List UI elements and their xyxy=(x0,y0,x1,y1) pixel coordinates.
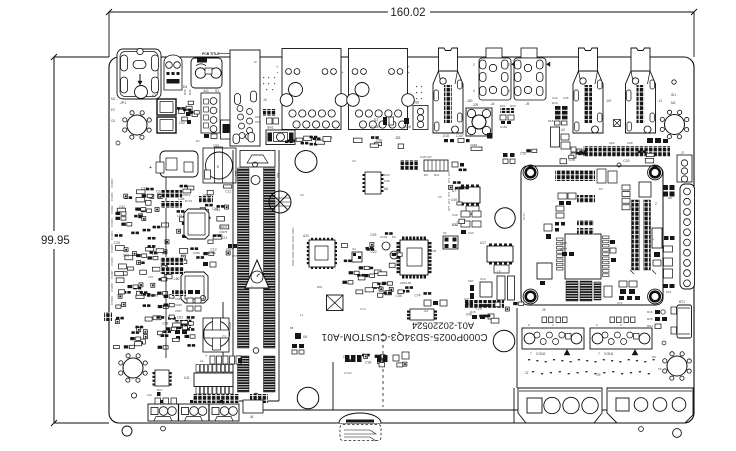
svg-text:7: 7 xyxy=(530,352,532,356)
svg-text:J4: J4 xyxy=(263,98,267,102)
svg-text:C21: C21 xyxy=(221,236,227,240)
svg-text:D20: D20 xyxy=(510,104,516,108)
svg-text:S1: S1 xyxy=(215,89,219,93)
svg-text:U1B: U1B xyxy=(430,249,436,253)
svg-text:Sw1: Sw1 xyxy=(267,126,274,130)
svg-text:X1: X1 xyxy=(443,231,447,235)
svg-text:K9: K9 xyxy=(658,367,662,371)
svg-text:D18: D18 xyxy=(443,134,449,138)
svg-text:C6062: C6062 xyxy=(110,205,114,214)
svg-text:M2: M2 xyxy=(671,101,676,105)
svg-text:J1: J1 xyxy=(659,99,663,103)
svg-text:+: + xyxy=(149,165,152,171)
svg-text:99.95: 99.95 xyxy=(41,235,70,247)
svg-text:C79: C79 xyxy=(180,106,186,110)
svg-text:D4: D4 xyxy=(183,85,187,89)
svg-text:U22: U22 xyxy=(303,234,309,238)
svg-text:.D3: .D3 xyxy=(373,118,378,122)
svg-text:C000P0025-SD34Q3-CUSTOM-A01: C000P0025-SD34Q3-CUSTOM-A01 xyxy=(321,331,487,342)
svg-text:.J9: .J9 xyxy=(525,102,529,106)
svg-text:C6066: C6066 xyxy=(110,257,114,266)
svg-text:C645: C645 xyxy=(175,303,182,307)
svg-text:C6067: C6067 xyxy=(110,270,114,279)
svg-text:L50: L50 xyxy=(174,277,180,281)
svg-text:J47: J47 xyxy=(606,99,612,103)
svg-text:C52: C52 xyxy=(179,121,185,125)
svg-text:C6072: C6072 xyxy=(182,193,191,197)
svg-text:C45: C45 xyxy=(563,96,569,100)
svg-text:C3: C3 xyxy=(222,335,226,339)
svg-text:C22: C22 xyxy=(370,250,376,254)
svg-text:R942: R942 xyxy=(291,259,295,266)
svg-text:C11: C11 xyxy=(225,190,231,194)
svg-text:.J4: .J4 xyxy=(490,102,494,106)
svg-text:88: 88 xyxy=(290,326,294,330)
svg-text:C68: C68 xyxy=(162,322,168,326)
svg-text:L51: L51 xyxy=(177,214,183,218)
svg-text:C55: C55 xyxy=(255,120,261,124)
svg-text:P0: P0 xyxy=(599,187,603,191)
svg-text:160.02: 160.02 xyxy=(390,7,425,19)
svg-text:.J29: .J29 xyxy=(472,103,478,107)
svg-text:ID1: ID1 xyxy=(671,93,676,97)
svg-text:R912: R912 xyxy=(291,235,295,242)
svg-text:C6075: C6075 xyxy=(219,230,228,234)
svg-text:.J5: .J5 xyxy=(541,308,546,312)
svg-text:U88 L80: U88 L80 xyxy=(400,281,412,285)
svg-text:.J25: .J25 xyxy=(394,136,401,140)
svg-text:C53: C53 xyxy=(370,233,376,237)
svg-text:C42: C42 xyxy=(119,205,125,209)
svg-text:D16: D16 xyxy=(647,310,653,314)
svg-text:L5: L5 xyxy=(497,270,501,274)
svg-text:U5: U5 xyxy=(303,335,307,339)
svg-text:C58: C58 xyxy=(376,138,382,142)
svg-text:C6: C6 xyxy=(111,119,115,123)
svg-text:DY16: DY16 xyxy=(185,199,192,203)
svg-text:C157: C157 xyxy=(560,247,568,251)
svg-text:C5T: C5T xyxy=(232,254,238,258)
svg-text:U2: U2 xyxy=(561,128,565,132)
svg-text:D21: D21 xyxy=(500,104,506,108)
svg-text:LR9: LR9 xyxy=(627,141,633,145)
svg-text:CY12: CY12 xyxy=(344,371,352,375)
svg-text:C6064: C6064 xyxy=(110,231,114,240)
svg-text:R71: R71 xyxy=(447,177,451,183)
svg-text:C647: C647 xyxy=(175,297,182,301)
svg-text:C204: C204 xyxy=(380,235,388,239)
svg-text:C74: C74 xyxy=(414,293,420,297)
svg-text:C6063: C6063 xyxy=(110,218,114,227)
svg-text:C81: C81 xyxy=(123,253,129,257)
svg-text:C87: C87 xyxy=(468,279,474,283)
svg-text:R33: R33 xyxy=(384,173,390,177)
svg-text:RN1: RN1 xyxy=(647,324,653,328)
svg-text:.29: .29 xyxy=(596,373,601,377)
svg-text:C40: C40 xyxy=(452,213,458,217)
svg-text:C25: C25 xyxy=(114,241,120,245)
svg-text:R6077: R6077 xyxy=(205,199,214,203)
svg-text:M1: M1 xyxy=(111,97,116,101)
svg-text:C56: C56 xyxy=(255,115,261,119)
svg-text:R74: R74 xyxy=(447,198,451,204)
svg-text:C6065: C6065 xyxy=(110,244,114,253)
svg-text:C46 C47: C46 C47 xyxy=(420,155,432,159)
svg-text:C6060: C6060 xyxy=(110,179,114,188)
svg-text:C652: C652 xyxy=(193,251,200,255)
svg-text:RN: RN xyxy=(668,196,672,200)
svg-text:C187: C187 xyxy=(456,134,464,138)
svg-text:.J10: .J10 xyxy=(146,393,152,397)
svg-text:F1: F1 xyxy=(152,94,156,98)
svg-text:C9: C9 xyxy=(438,195,442,199)
svg-text:R73: R73 xyxy=(447,191,451,197)
svg-text:.J2: .J2 xyxy=(524,371,528,375)
svg-text:IL2: IL2 xyxy=(424,309,429,313)
svg-text:U6: U6 xyxy=(384,187,388,191)
svg-text:C108: C108 xyxy=(371,125,379,129)
svg-text:C174: C174 xyxy=(522,213,526,220)
svg-text:C6069: C6069 xyxy=(110,296,114,305)
svg-text:X4: X4 xyxy=(352,247,356,251)
svg-text:R10B: R10B xyxy=(403,125,411,129)
svg-text:JU1: JU1 xyxy=(203,89,209,93)
svg-text:2: 2 xyxy=(655,202,657,206)
svg-text:CON1: CON1 xyxy=(604,352,614,356)
svg-text:.J2: .J2 xyxy=(680,151,684,155)
svg-text:D1: D1 xyxy=(196,139,200,143)
svg-text:4: 4 xyxy=(508,89,510,93)
svg-text:~: ~ xyxy=(251,284,253,288)
svg-text:.J16: .J16 xyxy=(413,101,419,105)
svg-text:C35: C35 xyxy=(384,179,390,183)
svg-text:C73: C73 xyxy=(360,307,366,311)
svg-text:U17: U17 xyxy=(480,241,486,245)
svg-text:LR2: LR2 xyxy=(609,141,615,145)
svg-text:R70: R70 xyxy=(447,170,451,176)
svg-text:CON2: CON2 xyxy=(536,352,546,356)
svg-text:7: 7 xyxy=(598,352,600,356)
svg-text:4: 4 xyxy=(473,89,475,93)
svg-text:D1B: D1B xyxy=(548,119,554,123)
svg-text:C181: C181 xyxy=(500,125,508,129)
svg-text:C6061: C6061 xyxy=(110,192,114,201)
svg-text:S: S xyxy=(217,164,220,169)
svg-text:D11: D11 xyxy=(434,173,440,177)
svg-text:U12: U12 xyxy=(480,277,486,281)
svg-text:C43: C43 xyxy=(468,231,474,235)
svg-text:C7x: C7x xyxy=(617,301,623,305)
svg-text:C96: C96 xyxy=(466,313,472,317)
svg-text:L1: L1 xyxy=(300,313,304,317)
svg-text:D9: D9 xyxy=(424,173,428,177)
svg-text:U3: U3 xyxy=(300,193,304,197)
svg-text:R75: R75 xyxy=(447,205,451,211)
svg-text:C6074: C6074 xyxy=(219,225,228,229)
svg-text:C1B4: C1B4 xyxy=(470,143,477,147)
svg-text:2: 2 xyxy=(473,63,475,67)
svg-text:JP1: JP1 xyxy=(120,101,126,105)
svg-text:A01-20220524: A01-20220524 xyxy=(412,320,474,331)
svg-text:R17: R17 xyxy=(157,388,163,392)
svg-text:D19: D19 xyxy=(552,101,558,105)
svg-text:C91: C91 xyxy=(214,208,220,212)
svg-text:C156: C156 xyxy=(560,241,568,245)
svg-text:R45: R45 xyxy=(183,89,187,95)
svg-text:R922: R922 xyxy=(291,243,295,250)
svg-text:R46: R46 xyxy=(188,89,192,95)
svg-text:R4BB: R4BB xyxy=(208,251,216,255)
svg-text:C53: C53 xyxy=(213,144,219,148)
svg-text:D10: D10 xyxy=(666,290,672,294)
svg-text:C3: C3 xyxy=(352,159,356,163)
svg-text:C55: C55 xyxy=(396,294,402,298)
svg-text:2: 2 xyxy=(508,63,510,67)
svg-text:R6071: R6071 xyxy=(203,193,212,197)
svg-text:U11: U11 xyxy=(184,376,190,380)
svg-text:PCB TITLE: PCB TITLE xyxy=(202,52,220,56)
svg-text:C44: C44 xyxy=(552,96,558,100)
svg-text:229: 229 xyxy=(277,172,281,178)
svg-text:C83: C83 xyxy=(177,315,183,319)
svg-text:C36: C36 xyxy=(365,361,371,365)
svg-text:R81: R81 xyxy=(317,285,323,289)
svg-text:R25: R25 xyxy=(647,317,653,321)
svg-text:C28: C28 xyxy=(475,307,481,311)
svg-text:R499: R499 xyxy=(150,293,157,297)
svg-text:C30: C30 xyxy=(623,159,629,163)
svg-text:L2: L2 xyxy=(200,359,204,363)
svg-text:C55: C55 xyxy=(520,152,526,156)
svg-text:U57: U57 xyxy=(148,275,154,279)
svg-text:E2: E2 xyxy=(111,108,115,112)
svg-text:C200: C200 xyxy=(228,322,232,330)
svg-text:C657: C657 xyxy=(175,309,182,313)
svg-text:C49: C49 xyxy=(451,198,457,202)
svg-text:.J6: .J6 xyxy=(249,415,253,419)
svg-text:R902: R902 xyxy=(291,227,295,234)
svg-text:BT1: BT1 xyxy=(679,300,685,304)
svg-text:R72: R72 xyxy=(447,184,451,190)
svg-text:R932: R932 xyxy=(291,251,295,258)
svg-text:D6: D6 xyxy=(652,355,656,359)
svg-text:C6068: C6068 xyxy=(110,283,114,292)
svg-text:P0: P0 xyxy=(392,235,396,239)
